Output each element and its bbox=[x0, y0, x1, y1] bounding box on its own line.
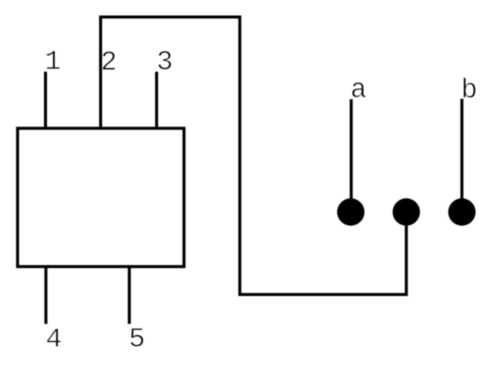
dot terminal under b bbox=[448, 198, 475, 225]
node label a bbox=[352, 82, 366, 97]
wire node a lead bbox=[350, 99, 353, 212]
pin label 5 bbox=[130, 328, 143, 346]
pin 3 lead bbox=[155, 72, 158, 129]
dot terminal under a bbox=[337, 198, 364, 225]
pin 5 lead bbox=[128, 267, 131, 324]
pin label 3 bbox=[158, 51, 171, 70]
wire from pin 2 to middle dot bbox=[101, 17, 407, 295]
pin 1 lead bbox=[44, 72, 47, 129]
dot terminal middle bbox=[393, 198, 420, 225]
IC box U1 bbox=[18, 128, 184, 266]
pin 4 lead bbox=[44, 267, 47, 324]
pin label 2 bbox=[103, 51, 116, 69]
pin label 4 bbox=[47, 329, 61, 347]
node label b bbox=[463, 78, 475, 98]
pin label 1 bbox=[47, 51, 60, 69]
wire node b lead bbox=[460, 99, 463, 212]
